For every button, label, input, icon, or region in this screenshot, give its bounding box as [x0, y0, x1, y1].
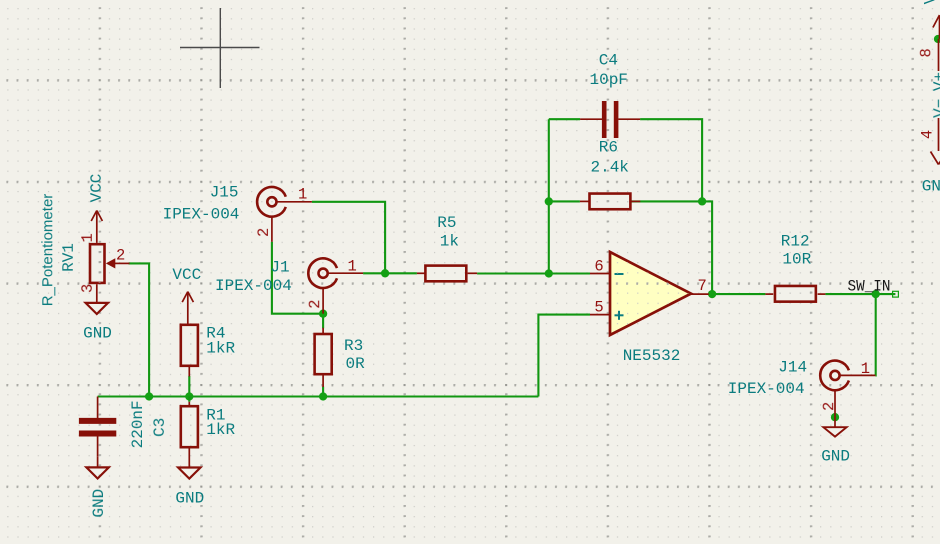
junction J14 pin2 / GND	[831, 413, 839, 421]
svg-text:SW_IN: SW_IN	[848, 277, 891, 295]
svg-text:4: 4	[919, 130, 937, 139]
svg-text:10pF: 10pF	[589, 71, 627, 89]
junction output node	[708, 290, 716, 298]
svg-text:GND: GND	[175, 490, 204, 508]
svg-text:1: 1	[861, 360, 870, 378]
svg-text:GND: GND	[90, 489, 108, 518]
junction R6 left	[545, 197, 553, 205]
svg-text:R3: R3	[344, 337, 363, 355]
op-amp U1 NE5532	[590, 252, 709, 335]
wire R4 bottom to bus	[188, 376, 190, 397]
svg-text:1: 1	[79, 233, 97, 242]
svg-text:5: 5	[594, 299, 603, 317]
svg-text:IPEX-004: IPEX-004	[215, 277, 292, 295]
svg-text:V−: V−	[931, 99, 940, 118]
svg-text:VCC: VCC	[922, 0, 940, 4]
svg-text:VCC: VCC	[88, 174, 106, 203]
resistor R12	[765, 286, 825, 302]
svg-text:220nF: 220nF	[129, 400, 147, 448]
wire RV1 wiper to bus	[129, 263, 150, 396]
svg-text:VCC: VCC	[172, 266, 201, 284]
wire op-amp output to R12	[709, 293, 766, 295]
power flag VCC (R4)	[182, 292, 193, 325]
ground GND (C3)	[86, 457, 108, 479]
svg-text:8: 8	[917, 48, 935, 57]
svg-text:J15: J15	[210, 184, 239, 202]
resistor R6	[580, 194, 640, 210]
wire SW_IN node down to J14 pin1	[874, 294, 876, 375]
svg-text:RV1: RV1	[60, 243, 78, 272]
svg-text:10R: 10R	[782, 251, 811, 269]
junction pin6 node	[545, 269, 553, 277]
svg-text:R_Potentiometer: R_Potentiometer	[39, 194, 56, 307]
op-amp minus mark	[615, 273, 624, 275]
resistor R4	[181, 325, 198, 377]
svg-text:R6: R6	[599, 139, 618, 157]
power flag VCC (RV1)	[91, 211, 102, 243]
svg-text:GND: GND	[821, 448, 850, 466]
svg-text:3: 3	[79, 284, 97, 293]
svg-text:1kR: 1kR	[206, 421, 235, 439]
svg-text:2: 2	[116, 247, 125, 265]
cursor crosshair	[180, 8, 260, 88]
resistor R5	[417, 266, 477, 282]
wire R6 right	[631, 200, 702, 202]
svg-text:2: 2	[255, 228, 273, 237]
wire C4 feedback top left	[549, 118, 580, 120]
svg-text:J14: J14	[778, 358, 807, 376]
svg-text:R5: R5	[437, 214, 456, 232]
power flag VCC (U1 pin8)	[939, 16, 940, 40]
svg-text:1kR: 1kR	[206, 339, 235, 357]
svg-text:IPEX-004: IPEX-004	[163, 205, 240, 223]
connector J14 IPEX-004	[820, 361, 875, 416]
ground GND (RV1)	[86, 303, 108, 314]
svg-text:2: 2	[306, 300, 324, 309]
junction bus-R3	[319, 392, 327, 400]
svg-text:V+: V+	[931, 72, 940, 91]
wire inverting input vertical riser	[548, 119, 550, 273]
resistor R1	[181, 397, 198, 468]
pin 8 V+	[938, 39, 940, 71]
wire feedback to output	[702, 201, 712, 294]
wiper arrow RV1 pin 2	[106, 258, 116, 268]
svg-text:J1: J1	[270, 258, 289, 276]
wire R12 to SW_IN end	[825, 293, 895, 295]
svg-text:GND: GND	[83, 325, 112, 343]
op-amp plus mark	[615, 314, 624, 316]
junction J1 pin2 / R3 top	[319, 310, 327, 318]
wire dangling end square	[893, 291, 899, 297]
svg-text:C3: C3	[151, 418, 169, 437]
pin 4 V-	[938, 118, 940, 151]
svg-text:R12: R12	[781, 232, 810, 250]
svg-text:GND: GND	[922, 178, 940, 196]
connector J15 IPEX-004	[257, 187, 312, 242]
ground GND (R1)	[178, 468, 200, 479]
junction R6 right	[698, 197, 706, 205]
wire J15 pin1 to node	[312, 202, 385, 273]
svg-text:0R: 0R	[346, 355, 366, 373]
svg-text:2: 2	[820, 402, 838, 411]
capacitor C3	[79, 397, 116, 457]
junction bus-wiper	[145, 392, 153, 400]
power pins unit NE5532 (right edge, clipped)	[931, 15, 940, 165]
wire C4 feedback top right	[640, 119, 702, 201]
potentiometer RV1	[90, 244, 130, 303]
svg-text:1: 1	[348, 258, 357, 276]
svg-text:7: 7	[697, 277, 706, 295]
ground arrow (U1 pin4)	[931, 152, 939, 165]
junction J15 wire / J1 pin1	[381, 269, 389, 277]
wire bus up to pin5	[538, 315, 590, 397]
wire J1 pin1 to R5	[363, 272, 417, 274]
svg-text:NE5532: NE5532	[623, 347, 681, 365]
wire R6 left	[549, 200, 580, 202]
svg-text:2.4k: 2.4k	[590, 159, 628, 177]
svg-text:6: 6	[594, 258, 603, 276]
svg-text:IPEX-004: IPEX-004	[728, 380, 805, 398]
wire bus VCC/2 horizontal	[98, 395, 539, 397]
svg-text:1: 1	[298, 185, 307, 203]
connector J1 IPEX-004	[308, 258, 363, 313]
svg-text:1k: 1k	[440, 233, 459, 251]
capacitor C4	[580, 101, 640, 138]
ground GND (J14)	[823, 415, 846, 436]
resistor R3	[315, 328, 332, 387]
junction power pin8 top right	[934, 35, 940, 43]
junction bus-R4R1	[185, 392, 193, 400]
wire R5 to op-amp pin6	[477, 272, 590, 274]
junction SW_IN / J14 branch	[872, 290, 880, 298]
wire J15 pin2 down to R3 node	[272, 242, 323, 314]
svg-text:C4: C4	[599, 51, 618, 69]
